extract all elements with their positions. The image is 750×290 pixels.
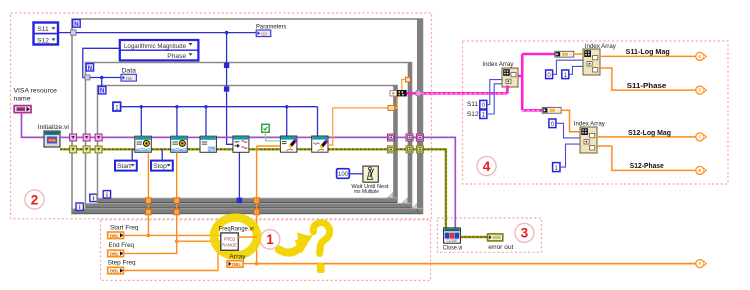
- wire magenta riser into Index Array 1: [507, 54, 542, 110]
- numeric constant 100: [337, 169, 350, 179]
- svg-text:S12: S12: [467, 111, 479, 118]
- indicator Array: [227, 253, 246, 267]
- control End Freq: [108, 242, 134, 257]
- svg-text:DBL: DBL: [110, 233, 119, 238]
- svg-text:FreqRange.vi: FreqRange.vi: [219, 226, 254, 233]
- indicator error out: [488, 234, 514, 251]
- wire VISA main line through loops: [60, 137, 455, 228]
- constants 0/1 for Index Array 3: [549, 119, 560, 172]
- svg-text:S11-Log Mag: S11-Log Mag: [626, 49, 670, 56]
- wire S-parameter selection: [58, 30, 256, 35]
- wire Data to node (vertical through loop tunnels): [224, 33, 233, 145]
- boolean constant [2]: [262, 124, 269, 132]
- wire build-array upper elbow to loop2 tunnel: [402, 79, 406, 90]
- svg-text:100: 100: [338, 172, 349, 178]
- svg-text:VISA: VISA: [48, 138, 56, 142]
- enum constant Logarithmic Magnitude / Phase: [120, 40, 199, 60]
- wire frequency riser from region1 to VI1: [148, 152, 176, 241]
- control Step Freq: [108, 259, 136, 274]
- yellow highlighter ellipse around FreqRange.vi: [214, 218, 257, 256]
- svg-text:S12-Phase: S12-Phase: [630, 163, 664, 170]
- svg-text:Start Freq: Start Freq: [110, 225, 139, 232]
- indicator Parameters: [256, 24, 287, 37]
- loop2 bottom-right resize wedge: [402, 198, 407, 203]
- svg-text:S11: S11: [37, 26, 49, 33]
- subVI Initialize.vi: [38, 124, 70, 147]
- wire measurement format: [83, 48, 121, 86]
- subVI read data 4 (icon row): [233, 136, 249, 152]
- svg-text:Index Array: Index Array: [574, 120, 606, 127]
- enum constant S11/S12: [34, 23, 59, 45]
- subVI Close.vi: [443, 228, 463, 252]
- wire magenta Index Array 1 up to converter 1: [522, 53, 555, 55]
- svg-text:I16: I16: [261, 32, 267, 37]
- wire Step Freq to FreqRange: [124, 247, 221, 271]
- svg-text:Step Freq: Step Freq: [108, 259, 136, 266]
- constant S12 index 1: [467, 110, 487, 119]
- svg-text:N: N: [74, 22, 78, 28]
- svg-text:B: B: [698, 168, 701, 173]
- wire Array long output to connector A: [243, 263, 695, 265]
- wire S11-Phase to connector D: [600, 68, 696, 90]
- svg-text:Array: Array: [229, 253, 246, 260]
- annotation region 4 dashed box: [463, 41, 729, 184]
- wire S11-Log Mag to connector E: [600, 55, 696, 57]
- svg-text:DBL: DBL: [110, 251, 119, 256]
- wires S11/S12 index constants to Index Array 1: [487, 80, 502, 114]
- svg-text:Data: Data: [122, 68, 137, 75]
- wire 100 to Wait: [349, 173, 363, 175]
- connector terminal E: [696, 52, 706, 60]
- svg-text:1: 1: [115, 104, 119, 111]
- indicator Data: [121, 68, 136, 82]
- converter node 1 (S11): [555, 51, 574, 57]
- wires index constants to Index Array 2: [553, 60, 583, 74]
- subVI configure 3 (icon row): [200, 136, 216, 152]
- for-loop 3 frame: [98, 86, 398, 203]
- wire error main line through loops: [60, 149, 446, 228]
- tunnels frequency risers on loop bottom borders: [146, 198, 260, 215]
- connector terminal C: [696, 133, 706, 141]
- for-loop 2 frame: [86, 63, 413, 208]
- svg-text:Initialize.vi: Initialize.vi: [38, 124, 70, 131]
- svg-text:name: name: [14, 96, 31, 103]
- svg-text:4: 4: [483, 159, 491, 174]
- for-loop outer frame: [72, 19, 423, 214]
- function Index Array 1: [482, 61, 518, 87]
- constant S11 index 0: [467, 100, 487, 109]
- wire magenta measurement data out of loops: [407, 90, 508, 96]
- svg-text:I16: I16: [126, 76, 132, 81]
- svg-text:DBL: DBL: [110, 269, 119, 274]
- wire converter2 to Index Array 3: [561, 110, 580, 131]
- connector terminal A (bottom right): [696, 260, 706, 268]
- svg-text:N: N: [100, 89, 104, 95]
- outer loop bottom-right resize wedge: [412, 203, 417, 208]
- svg-text:E: E: [698, 54, 701, 59]
- wire S12-Log Mag to connector C: [597, 136, 696, 138]
- svg-text:C: C: [698, 135, 701, 140]
- svg-text:ms Multiple: ms Multiple: [354, 189, 379, 195]
- svg-text:FREQ: FREQ: [224, 236, 236, 241]
- connector terminal D: [696, 86, 706, 94]
- control VISA resource name: [14, 88, 58, 113]
- wire frequency array riser (x=256.6): [257, 146, 281, 264]
- svg-text:Close.vi: Close.vi: [443, 244, 463, 251]
- svg-text:Phase: Phase: [167, 53, 186, 60]
- wire icon4 left input (from Data vertical) done above; wire icon4 bottom to tunnel: [237, 152, 243, 203]
- annotation region 3 dashed box: [438, 218, 542, 252]
- svg-text:S12: S12: [37, 37, 49, 44]
- subVI marker/save 6 (icon row): [312, 136, 329, 152]
- for-loop 2 N terminal: [86, 64, 93, 72]
- svg-text:Index Array: Index Array: [482, 61, 514, 68]
- wire channel-1 bus: [121, 105, 318, 136]
- for-loop 2 i terminal: [90, 194, 97, 202]
- svg-text:S12-Log Mag: S12-Log Mag: [628, 130, 671, 137]
- for-loop 3 N terminal: [99, 87, 106, 95]
- wire Stop to VI 2: [161, 149, 163, 160]
- svg-text:S11-Phase: S11-Phase: [627, 83, 667, 90]
- annotation circle 3: [515, 223, 534, 242]
- wire icon6 output riser to build-array: [328, 96, 397, 145]
- function Index Array 3: [574, 120, 606, 153]
- annotation region 1 dashed box: [101, 220, 431, 281]
- wire S12-Phase to connector B: [597, 146, 696, 170]
- function Wait Until Next ms Multiple: [351, 166, 389, 195]
- svg-text:D: D: [698, 88, 701, 93]
- svg-text:Logarithmic Magnitude: Logarithmic Magnitude: [124, 43, 186, 50]
- svg-text:Stop: Stop: [153, 163, 167, 170]
- svg-text:2: 2: [31, 192, 39, 207]
- svg-text:3: 3: [521, 226, 529, 241]
- connector terminal B: [696, 166, 706, 174]
- converter node 2 (S12): [542, 107, 561, 113]
- enum constant Start: [115, 161, 137, 171]
- enum constant Stop: [151, 161, 173, 171]
- svg-text:End Freq: End Freq: [109, 242, 135, 249]
- wires index constants to Index Array 3: [556, 123, 580, 167]
- wire Start to VI 1: [131, 149, 133, 160]
- subVI configure 1 (icon row): [135, 136, 152, 152]
- subVI configure 2 (icon row): [171, 136, 188, 152]
- svg-text:A: A: [698, 261, 701, 266]
- for-loop outer i terminal: [76, 203, 83, 211]
- wire FreqRange output: [238, 236, 256, 238]
- tunnel array on loop3 right border: [388, 105, 395, 110]
- wire End Freq to FreqRange: [124, 241, 221, 253]
- svg-text:DBL: DBL: [232, 262, 241, 267]
- yellow annotation arrow: [279, 248, 300, 253]
- wire Close.vi to error out: [460, 236, 487, 238]
- for-loop outer N terminal: [73, 20, 81, 28]
- svg-text:CLOSE: CLOSE: [447, 239, 458, 243]
- svg-text:RANGE: RANGE: [222, 242, 237, 247]
- wire boolean to VI 5: [266, 132, 281, 141]
- wire VISA from control to Initialize.vi: [22, 113, 45, 138]
- svg-text:Start: Start: [117, 163, 131, 170]
- function Index Array 2: [583, 43, 616, 75]
- numeric constant 1: [113, 102, 121, 111]
- svg-text:1: 1: [266, 232, 274, 247]
- wire Start Freq to FreqRange: [124, 234, 221, 236]
- constants 0/1 for Index Array 2: [546, 70, 569, 79]
- control Start Freq: [108, 225, 139, 239]
- yellow annotation question mark: [313, 223, 329, 254]
- loop3 bottom-right resize wedge: [388, 193, 393, 198]
- build array node: [390, 90, 407, 96]
- svg-text:N: N: [88, 66, 92, 72]
- annotation circle 1: [260, 230, 280, 250]
- svg-text:S11: S11: [467, 101, 479, 108]
- annotation region 2 dashed box: [11, 13, 432, 219]
- subVI FreqRange.vi: [219, 226, 254, 251]
- wire converter1 to Index Array 2: [574, 53, 583, 55]
- annotation circle 4: [477, 156, 496, 175]
- tunnels error on loop borders: [70, 146, 424, 153]
- tunnels VISA on loop borders: [70, 134, 424, 141]
- svg-text:VISA resource: VISA resource: [14, 88, 58, 95]
- annotation circle 2: [25, 190, 44, 209]
- subVI marker/save 5 (icon row): [280, 136, 297, 152]
- svg-text:error out: error out: [488, 244, 513, 251]
- for-loop 3 i terminal: [103, 191, 110, 199]
